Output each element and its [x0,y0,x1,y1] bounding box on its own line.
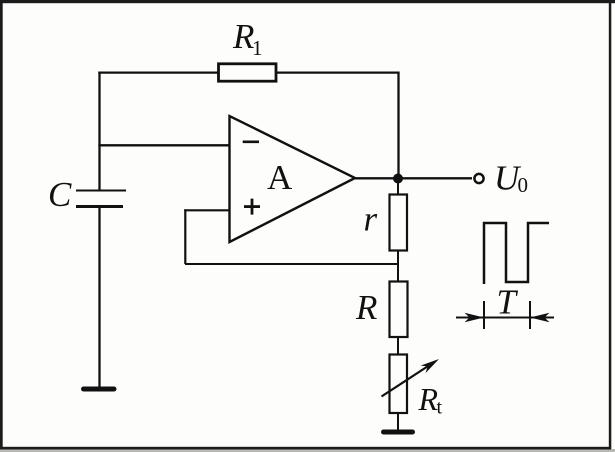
wire: r to R [397,251,399,282]
border frame top [0,0,615,3]
dimension tick left [483,301,485,329]
dimension line for T [456,317,554,319]
resistor R body [390,282,408,338]
wire: right vertical from R1 down to output node [397,72,399,180]
dimension tick right [529,301,531,329]
svg-text:T: T [497,283,519,322]
svg-text:C: C [48,175,72,214]
resistor r body [390,195,408,251]
op-amp plus sign [244,199,260,215]
border frame left [0,0,3,449]
svg-text:R: R [418,381,439,417]
svg-text:r: r [364,200,378,239]
svg-text:1: 1 [252,36,263,60]
thermistor Rt variable arrow [382,359,440,397]
ground (left) [84,387,115,392]
wire: R to Rt [397,337,399,355]
capacitor C bottom plate [76,205,123,208]
label Rt [418,381,443,419]
wire: capacitor to ground [98,207,100,388]
border frame right [609,0,612,449]
dimension arrow right (pointing left) [530,313,550,322]
thermistor Rt body [390,355,408,414]
op-amp A triangle [230,116,356,242]
op-amp minus sign [243,141,259,144]
ground (right) [384,430,413,435]
label R1 [232,17,263,60]
wire: feedback bottom horizontal to r/R junction [185,263,399,265]
capacitor C top plate [76,190,126,192]
svg-text:0: 0 [518,173,529,197]
wire: top feedback right segment [277,71,400,73]
wire: top feedback left segment [98,71,219,73]
svg-text:R: R [355,288,377,327]
waveform square wave [484,223,549,284]
svg-text:A: A [267,158,293,197]
wire: left vertical top (node to capacitor) [98,72,100,191]
wire: feedback left vertical [184,209,186,264]
wire: node to resistor r [397,178,399,195]
wire: non-inverting input [184,209,230,211]
wire: inverting input [98,144,230,146]
wire: op-amp output [355,177,472,179]
resistor R1 body [219,64,277,81]
terminal Uo open circle [474,174,483,183]
label U0 [494,159,528,198]
border frame bottom [0,447,611,450]
wire: Rt to ground [397,413,399,431]
svg-text:t: t [437,397,443,419]
node: output junction dot [393,174,403,184]
gray window strip bottom [0,449,615,452]
dimension arrow left (pointing right) [465,313,485,322]
